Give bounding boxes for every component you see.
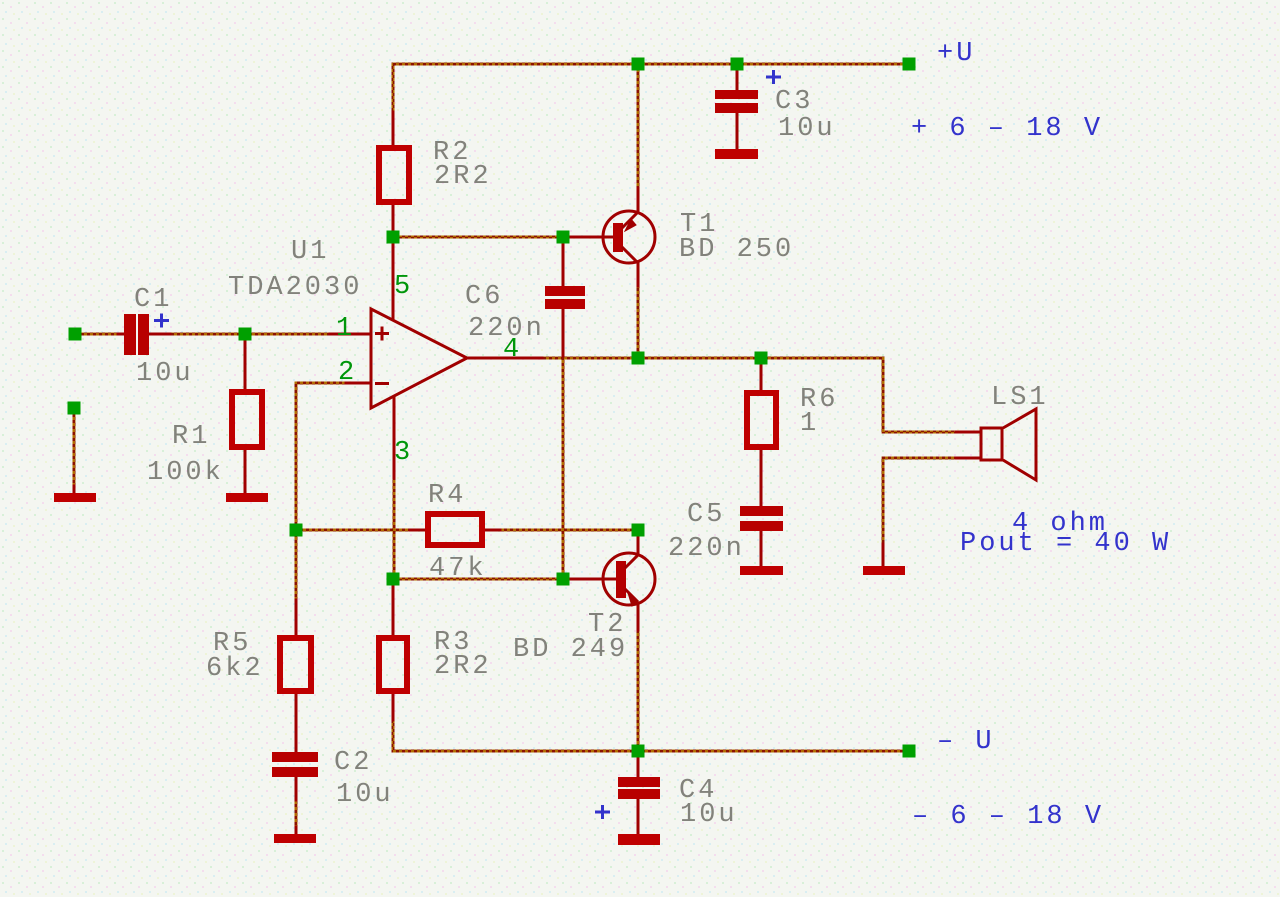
svg-text:– U: – U — [937, 727, 995, 757]
resistor R4 — [428, 514, 482, 545]
svg-text:+ 6 – 18 V: + 6 – 18 V — [911, 114, 1103, 144]
junction node 5/R2 — [387, 231, 400, 244]
resistor R1 — [232, 392, 262, 447]
ground under C4 — [618, 834, 660, 845]
wire C2 to ground — [295, 798, 298, 829]
wire pin C3 top — [736, 68, 739, 90]
svg-text:10u: 10u — [778, 114, 836, 144]
wire input stub to ground — [73, 414, 76, 488]
junction C3 on +U — [731, 58, 744, 71]
svg-text:C1: C1 — [134, 285, 172, 315]
wire R5 top — [295, 536, 298, 602]
ground under C5 — [740, 566, 783, 575]
wire pin R1 bottom — [244, 450, 247, 494]
wire pin input ground — [73, 486, 76, 494]
wire pin opamp out — [467, 357, 542, 360]
wire pin T2 base — [570, 578, 616, 581]
ground under C2 — [274, 834, 316, 843]
wire pin opamp in2 — [346, 382, 371, 385]
wire pin T1 base — [570, 236, 613, 239]
svg-text:U1: U1 — [291, 237, 329, 267]
wire pin2 to R4 node — [296, 383, 348, 530]
wire T2 base row — [393, 578, 575, 581]
wire pin T1 emitter bottom — [637, 262, 640, 286]
terminal +U — [903, 58, 916, 71]
wire R2 top riser — [392, 64, 395, 114]
wire pin R6 bottom — [760, 450, 763, 506]
svg-text:C6: C6 — [465, 282, 503, 312]
capacitor C5 — [740, 506, 783, 531]
wire pin C1 right — [149, 333, 170, 336]
wire pin R3 bottom — [392, 694, 395, 720]
svg-text:10u: 10u — [136, 359, 194, 389]
wire C1 input left — [81, 333, 124, 336]
wire pin C6 top — [562, 240, 565, 286]
junction C1/R1 node — [239, 328, 252, 341]
wire pin T2 emitter — [637, 604, 640, 630]
wire pin R1 top — [244, 340, 247, 389]
svg-text:47k: 47k — [429, 554, 487, 584]
wire pin R3 top — [392, 583, 395, 635]
wire pin R6 top — [760, 362, 763, 390]
svg-text:100k: 100k — [147, 458, 224, 488]
wire pin C2 bottom — [295, 777, 298, 800]
wire C6 lower — [562, 355, 565, 573]
terminal -U — [903, 745, 916, 758]
wire pin C6 bottom — [562, 309, 565, 356]
wire pin C4 top — [637, 755, 640, 777]
svg-text:2R2: 2R2 — [434, 652, 492, 682]
ground under input stub — [54, 493, 96, 502]
wire pin opamp in1 — [330, 333, 371, 336]
transistor T2 BD249 — [603, 553, 655, 606]
wire C1 to R1 node — [149, 333, 330, 336]
wire speaker bottom to ground — [883, 458, 958, 546]
ground under LS1 — [863, 566, 905, 575]
plus mark C1 — [154, 314, 169, 328]
wire +U rail — [393, 63, 909, 66]
wire pin C1 left — [118, 333, 124, 336]
op-amp U1 TDA2030 — [371, 309, 467, 408]
wire pin T1 collector top — [637, 188, 640, 212]
junction R4/T2 collector node — [632, 524, 645, 537]
wire pin opamp 3 — [393, 397, 396, 478]
capacitor C1 — [124, 314, 149, 355]
terminal input left — [69, 328, 82, 341]
junction C6 top node — [557, 231, 570, 244]
svg-text:R4: R4 — [428, 481, 466, 511]
svg-text:C2: C2 — [334, 748, 372, 778]
junction C4 on -U — [632, 745, 645, 758]
svg-text:TDA2030: TDA2030 — [228, 273, 362, 303]
svg-text:2R2: 2R2 — [434, 162, 492, 192]
speaker LS1 — [981, 409, 1036, 480]
svg-text:C5: C5 — [687, 500, 725, 530]
wire to speaker top — [883, 358, 958, 432]
resistor R6 — [747, 393, 776, 447]
resistor R3 — [379, 638, 407, 691]
wire pin R5 top — [295, 600, 298, 635]
plus mark C3 — [766, 70, 781, 84]
junction T1 collector on +U — [632, 58, 645, 71]
svg-text:+U: +U — [937, 39, 975, 69]
svg-text:220n: 220n — [668, 534, 745, 564]
wire pin R2 top — [392, 112, 395, 145]
wire pin R4 left — [410, 529, 425, 532]
svg-text:6k2: 6k2 — [206, 654, 264, 684]
svg-text:BD 250: BD 250 — [679, 235, 794, 265]
capacitor C4 — [618, 777, 660, 799]
resistor R2 — [379, 148, 409, 202]
svg-text:1: 1 — [336, 314, 355, 344]
resistor R5 — [280, 638, 311, 691]
svg-text:R1: R1 — [172, 422, 210, 452]
junction output node — [632, 352, 645, 365]
wire pin C3 bottom — [736, 113, 739, 150]
wire node5 row to T1 base — [393, 236, 575, 239]
wire T2 emitter down — [637, 628, 640, 751]
svg-text:Pout = 40 W: Pout = 40 W — [960, 529, 1171, 559]
svg-text:10u: 10u — [336, 780, 394, 810]
wire T1 emitter to output node — [637, 284, 640, 358]
wire pin LS1 top — [956, 431, 981, 434]
svg-text:10u: 10u — [680, 800, 738, 830]
wire pin R2 bottom — [392, 205, 395, 234]
wire pin R5 bottom — [295, 694, 298, 752]
wire pin3 lower — [393, 476, 396, 579]
junction C6/T2 base node — [557, 573, 570, 586]
ground under C3 — [715, 149, 758, 159]
junction R5/pin2 node — [290, 524, 303, 537]
svg-text:2: 2 — [338, 358, 357, 388]
wire pin C5 bottom — [760, 531, 763, 567]
junction pin3/R3 node — [387, 573, 400, 586]
svg-text:– 6 – 18 V: – 6 – 18 V — [912, 802, 1104, 832]
wire R4 row — [296, 529, 638, 532]
plus mark C4 — [595, 805, 610, 819]
wire pin T2 collector — [637, 533, 640, 554]
svg-text:LS1: LS1 — [991, 383, 1049, 413]
wire pin LS1 bottom — [956, 457, 981, 460]
wire pin R4 right — [485, 529, 500, 532]
svg-text:3: 3 — [394, 438, 413, 468]
capacitor C6 — [545, 286, 585, 309]
wire T1 collector to +U — [637, 70, 640, 190]
wire pin opamp 5 — [392, 240, 395, 319]
capacitor C3 — [715, 90, 758, 113]
wire -U rail — [638, 750, 909, 753]
svg-text:1: 1 — [800, 409, 819, 439]
svg-text:220n: 220n — [468, 314, 545, 344]
wire pin C4 bottom — [637, 799, 640, 835]
wire R3 bottom corner — [393, 718, 638, 751]
svg-text:C3: C3 — [775, 87, 813, 117]
wire output row — [540, 357, 883, 360]
transistor T1 BD250 — [603, 211, 655, 263]
wire pin C2 ground — [295, 827, 298, 835]
terminal input stub — [68, 402, 81, 415]
svg-text:BD 249: BD 249 — [513, 635, 628, 665]
ground under R1 — [226, 493, 268, 502]
capacitor C2 — [272, 752, 318, 777]
wire pin LS1 ground — [882, 544, 885, 567]
svg-text:5: 5 — [394, 272, 413, 302]
junction R6 on output — [755, 352, 768, 365]
